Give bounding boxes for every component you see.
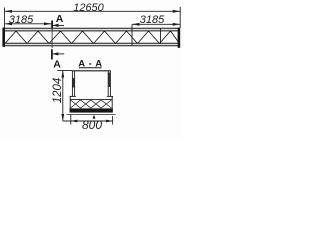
svg-text:1204: 1204 xyxy=(52,78,64,104)
dim 1204 extension top xyxy=(57,70,72,72)
extension line left end xyxy=(4,8,6,29)
section right wall double line xyxy=(108,71,110,96)
section bottom thin line xyxy=(67,113,116,115)
arrowhead right of 3185 right xyxy=(173,23,181,26)
arrowhead left of 3185 left xyxy=(5,22,13,25)
section cut trace through truss xyxy=(51,28,53,48)
section lattice top line xyxy=(70,99,112,101)
paper background xyxy=(0,0,183,139)
arrowhead left of 3185 right xyxy=(132,23,140,26)
dimension line 3185 left xyxy=(5,23,52,25)
section mark top arrow xyxy=(53,24,65,26)
dim 1204 arrow up xyxy=(61,71,64,78)
section mark bottom stroke xyxy=(51,49,53,59)
section mark top stroke xyxy=(51,21,53,29)
dim 800 arrow right xyxy=(106,120,113,123)
section top edge line xyxy=(72,70,111,72)
section left wall dark fill xyxy=(73,78,75,88)
section left wall double line xyxy=(72,71,74,96)
svg-text:800: 800 xyxy=(82,118,102,132)
svg-text:12650: 12650 xyxy=(73,2,104,14)
section right wall dark fill xyxy=(108,73,110,88)
section bottom box left edge xyxy=(69,96,71,112)
dim 800 right extension xyxy=(112,116,114,125)
svg-text:3185: 3185 xyxy=(140,14,165,26)
section mark bottom arrow xyxy=(52,53,64,55)
dim 1204 line xyxy=(62,71,64,122)
section lattice diagonals xyxy=(71,100,112,108)
svg-text:A: A xyxy=(56,13,64,25)
truss zigzag web xyxy=(5,31,180,44)
arrowhead left of 12650 xyxy=(5,10,13,13)
dim 800 left extension xyxy=(70,115,72,125)
dim 800 arrow left xyxy=(71,120,78,123)
truss right end post xyxy=(178,28,181,48)
section right wall foot xyxy=(107,95,113,97)
truss chord smudge fills xyxy=(3,28,180,31)
svg-text:3185: 3185 xyxy=(9,14,34,26)
truss vertical member at panel point x=132 xyxy=(131,24,133,45)
section left wall foot xyxy=(70,95,76,97)
dimension line 12650 xyxy=(5,10,181,12)
center tick under section xyxy=(93,115,96,119)
dimension line 3185 right xyxy=(132,23,180,25)
section bottom box right edge xyxy=(111,96,113,112)
arrowhead right of 12650 xyxy=(173,10,181,13)
truss left end post xyxy=(2,28,5,47)
truss bottom chord double line xyxy=(3,43,180,45)
truss top chord double line xyxy=(3,28,180,31)
svg-text:A: A xyxy=(53,59,61,71)
section title underline xyxy=(79,67,102,69)
dim 800 line xyxy=(63,120,113,122)
truss vertical member x=160.5 xyxy=(160,29,162,45)
extension line right end xyxy=(179,7,181,28)
dim 1204 arrow down xyxy=(61,114,64,121)
arrowhead right of 3185 left xyxy=(44,22,52,25)
section bottom band xyxy=(70,108,113,112)
